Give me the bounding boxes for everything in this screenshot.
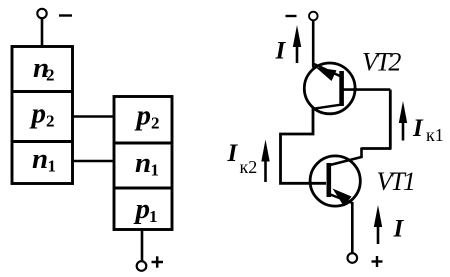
VT1 emitter lead with PNP arrow	[329, 189, 352, 207]
VT2 emitter lead with NPN arrow	[314, 64, 341, 81]
right stack divider 1	[114, 142, 172, 145]
svg-text:VT2: VT2	[362, 48, 401, 77]
svg-text:к1: к1	[426, 125, 444, 145]
VT2 base bar	[339, 71, 344, 106]
svg-text:p: p	[134, 100, 152, 132]
VT1 collector lead	[329, 148, 362, 166]
svg-text:n: n	[135, 147, 151, 179]
label Ik2	[227, 140, 258, 177]
right stack divider 2	[114, 187, 172, 190]
transistor VT2 circle	[304, 63, 355, 114]
VT2 base lead	[343, 88, 390, 91]
svg-text:VT1: VT1	[377, 167, 414, 196]
terminal anode (bottom, plus)	[137, 256, 163, 271]
wire n1-n1 between stacks	[73, 160, 115, 163]
svg-text:I: I	[227, 140, 239, 167]
wire horizontal to VT1 collector	[362, 147, 392, 150]
svg-text:2: 2	[151, 114, 160, 133]
left stack divider 2	[12, 140, 73, 143]
left stack box	[12, 47, 73, 184]
svg-text:I: I	[412, 115, 424, 142]
wire right stack to bottom terminal	[141, 230, 144, 262]
label n1 (right)	[135, 147, 159, 180]
terminal anode (bottom right, plus)	[348, 253, 383, 267]
label p2 (left)	[29, 98, 55, 131]
wire terminal to VT2 emitter	[312, 21, 315, 68]
label n2	[33, 52, 55, 85]
svg-text:p: p	[133, 193, 151, 225]
svg-text:1: 1	[48, 157, 57, 176]
svg-text:I: I	[275, 38, 287, 65]
terminal cathode (top right, minus)	[286, 12, 318, 21]
label p1	[133, 193, 158, 226]
label Ik1	[412, 115, 444, 145]
label p2 (right)	[134, 100, 160, 133]
right stack box	[114, 97, 172, 230]
left stack divider 1	[12, 90, 73, 93]
wire VT1 emitter to bottom terminal	[351, 202, 354, 254]
wire VT2 collector down-left-down to VT1 base	[281, 108, 327, 183]
wire top terminal to left stack	[41, 18, 44, 47]
svg-text:I: I	[393, 216, 405, 243]
current arrow Ik1	[399, 101, 407, 141]
svg-text:n: n	[32, 143, 48, 175]
svg-text:2: 2	[46, 66, 55, 85]
svg-text:2: 2	[46, 112, 55, 131]
current arrow I (bottom)	[374, 205, 382, 244]
svg-text:к2: к2	[240, 157, 258, 177]
svg-text:1: 1	[151, 161, 160, 180]
current arrow I (top)	[293, 25, 301, 63]
terminal cathode (top left, minus)	[37, 9, 72, 18]
svg-text:1: 1	[149, 207, 158, 226]
label n1 (left)	[32, 143, 56, 176]
transistor VT1 circle	[310, 156, 360, 206]
VT2 collector lead	[313, 105, 342, 109]
wire VT2 base down	[389, 90, 392, 149]
current arrow Ik2	[261, 140, 269, 183]
wire p2-p2 between stacks	[73, 115, 115, 118]
VT1 base bar	[326, 163, 331, 197]
svg-text:p: p	[29, 98, 47, 130]
